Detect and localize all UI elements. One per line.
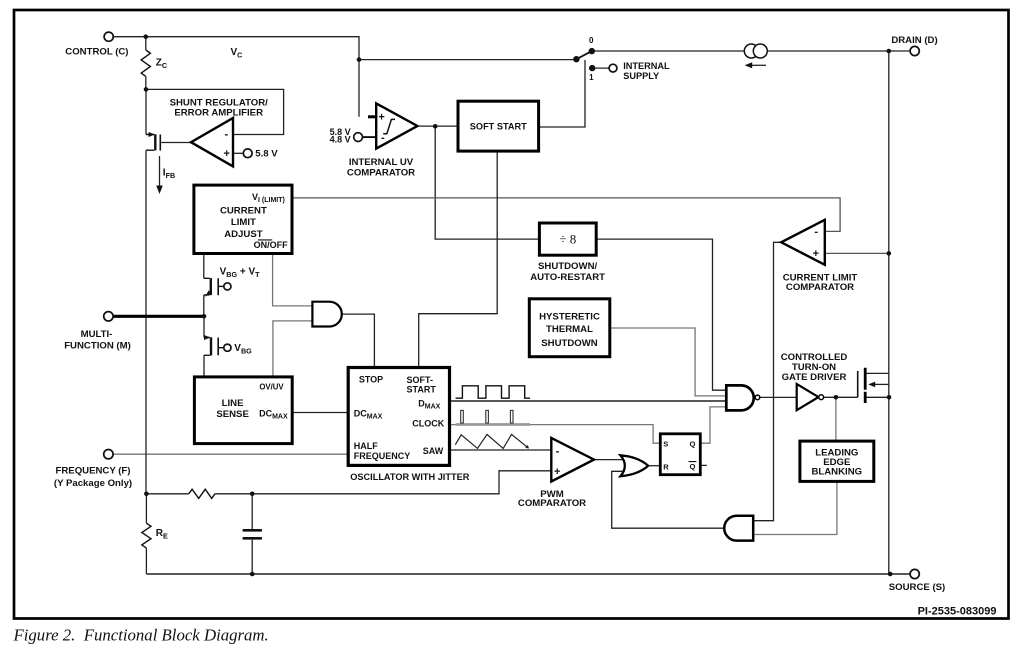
svg-text:LIMIT: LIMIT — [231, 217, 256, 228]
svg-text:R: R — [663, 463, 669, 472]
svg-text:GATE DRIVER: GATE DRIVER — [782, 372, 847, 383]
svg-text:HALF: HALF — [354, 441, 378, 451]
svg-text:COMPARATOR: COMPARATOR — [786, 282, 854, 293]
svg-text:FREQUENCY (F): FREQUENCY (F) — [56, 466, 131, 477]
svg-text:THERMAL: THERMAL — [546, 324, 593, 335]
svg-text:HYSTERETIC: HYSTERETIC — [539, 312, 600, 323]
svg-text:-: - — [556, 445, 560, 457]
svg-text:+: + — [813, 248, 819, 260]
svg-text:ON/OFF: ON/OFF — [254, 240, 288, 250]
svg-text:START: START — [407, 385, 437, 395]
svg-text:0: 0 — [589, 36, 594, 45]
svg-text:5.8 V: 5.8 V — [255, 149, 278, 160]
svg-text:S: S — [663, 440, 668, 449]
svg-text:ERROR AMPLIFIER: ERROR AMPLIFIER — [174, 108, 263, 119]
svg-text:+: + — [223, 148, 229, 160]
svg-text:SHUTDOWN: SHUTDOWN — [541, 338, 598, 349]
svg-text:+: + — [378, 112, 384, 124]
svg-text:OV/UV: OV/UV — [259, 383, 284, 392]
svg-text:+: + — [554, 466, 560, 478]
svg-text:4.8 V: 4.8 V — [330, 134, 351, 144]
svg-text:CURRENT: CURRENT — [220, 206, 267, 217]
svg-text:SOFT-: SOFT- — [407, 375, 434, 385]
svg-text:FUNCTION (M): FUNCTION (M) — [64, 341, 131, 352]
svg-text:-: - — [814, 226, 818, 238]
svg-text:SENSE: SENSE — [216, 409, 249, 420]
svg-text:SOFT START: SOFT START — [470, 121, 527, 131]
svg-text:PI-2535-083099: PI-2535-083099 — [918, 605, 997, 617]
svg-text:SAW: SAW — [423, 446, 444, 456]
svg-text:AUTO-RESTART: AUTO-RESTART — [530, 272, 605, 283]
svg-text:CONTROL (C): CONTROL (C) — [65, 47, 128, 58]
svg-text:Q: Q — [690, 462, 696, 471]
svg-text:VBG + VT: VBG + VT — [220, 267, 261, 279]
svg-text:MULTI-: MULTI- — [81, 329, 113, 340]
svg-text:OSCILLATOR WITH JITTER: OSCILLATOR WITH JITTER — [350, 472, 469, 482]
svg-text:SOURCE (S): SOURCE (S) — [889, 582, 946, 593]
svg-text:(Y Package Only): (Y Package Only) — [54, 478, 132, 489]
svg-text:Q: Q — [690, 440, 696, 449]
svg-text:1: 1 — [589, 73, 594, 82]
svg-text:INTERNAL: INTERNAL — [623, 61, 670, 71]
svg-text:Figure 2. Functional Block Di: Figure 2. Functional Block Diagram. — [13, 626, 269, 645]
svg-text:÷ 8: ÷ 8 — [559, 232, 576, 247]
svg-text:FREQUENCY: FREQUENCY — [354, 451, 411, 461]
svg-text:COMPARATOR: COMPARATOR — [347, 167, 415, 178]
svg-text:ADJUST: ADJUST — [224, 229, 263, 240]
svg-text:SHUTDOWN/: SHUTDOWN/ — [538, 261, 597, 272]
svg-text:DRAIN (D): DRAIN (D) — [891, 35, 937, 46]
svg-text:STOP: STOP — [359, 375, 383, 385]
svg-text:CLOCK: CLOCK — [412, 419, 444, 429]
svg-text:SUPPLY: SUPPLY — [623, 71, 659, 81]
svg-text:-: - — [224, 129, 228, 141]
svg-text:BLANKING: BLANKING — [811, 466, 862, 477]
svg-text:COMPARATOR: COMPARATOR — [518, 498, 586, 509]
svg-text:LINE: LINE — [222, 398, 244, 409]
svg-text:-: - — [381, 132, 385, 144]
